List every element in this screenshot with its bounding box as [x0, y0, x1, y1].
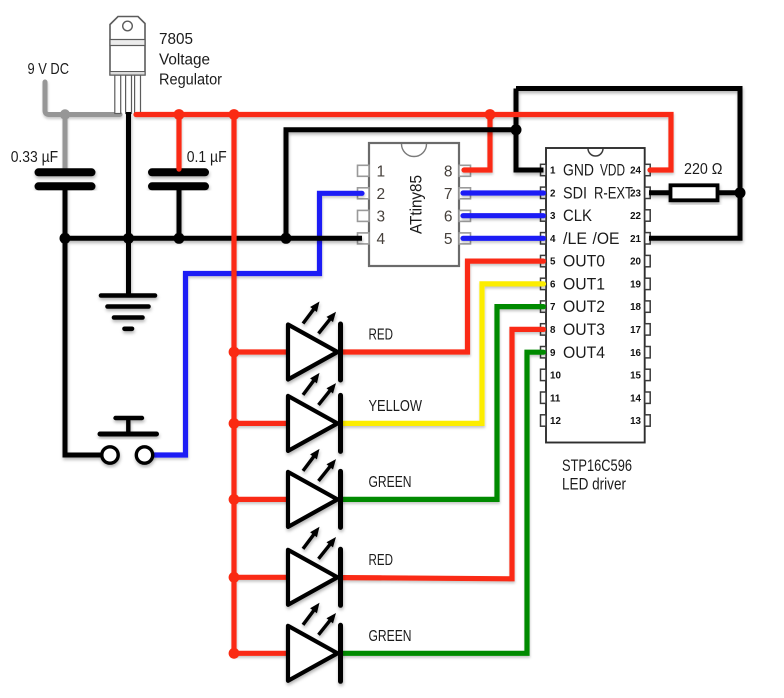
svg-text:OUT1: OUT1 — [563, 276, 605, 294]
svg-text:9: 9 — [550, 348, 556, 359]
svg-text:6: 6 — [444, 209, 453, 226]
svg-text:7: 7 — [444, 186, 453, 203]
svg-text:GREEN: GREEN — [369, 474, 412, 491]
svg-text:22: 22 — [630, 211, 641, 222]
svg-text:14: 14 — [630, 393, 641, 404]
svg-text:LED driver: LED driver — [562, 475, 626, 494]
svg-text:20: 20 — [630, 257, 641, 268]
svg-text:R-EXT: R-EXT — [594, 184, 633, 202]
svg-text:3: 3 — [550, 211, 556, 222]
svg-text:2: 2 — [377, 186, 386, 203]
svg-text:2: 2 — [550, 188, 556, 199]
svg-text:0.1 µF: 0.1 µF — [187, 149, 227, 166]
svg-text:RED: RED — [369, 327, 394, 344]
svg-text:16: 16 — [630, 348, 641, 359]
svg-text:STP16C596: STP16C596 — [562, 456, 632, 475]
svg-text:24: 24 — [630, 166, 641, 177]
svg-text:220 Ω: 220 Ω — [684, 161, 723, 178]
svg-text:12: 12 — [550, 416, 561, 427]
svg-text:9 V DC: 9 V DC — [28, 61, 70, 78]
svg-text:4: 4 — [377, 231, 386, 248]
svg-text:YELLOW: YELLOW — [369, 398, 423, 415]
svg-text:GREEN: GREEN — [369, 628, 412, 645]
svg-text:7805: 7805 — [159, 31, 193, 48]
svg-text:1: 1 — [550, 166, 556, 177]
svg-text:19: 19 — [630, 280, 641, 291]
svg-text:21: 21 — [630, 234, 641, 245]
svg-text:Regulator: Regulator — [159, 72, 222, 89]
svg-text:RED: RED — [369, 552, 394, 569]
svg-text:15: 15 — [630, 371, 641, 382]
svg-text:13: 13 — [630, 416, 641, 427]
svg-text:ATtiny85: ATtiny85 — [408, 175, 426, 234]
svg-text:VDD: VDD — [600, 162, 625, 180]
svg-text:0.33 µF: 0.33 µF — [11, 149, 59, 166]
svg-text:8: 8 — [444, 163, 453, 180]
svg-text:11: 11 — [550, 393, 561, 404]
svg-text:OUT4: OUT4 — [563, 344, 605, 362]
svg-text:/LE: /LE — [563, 230, 587, 248]
svg-text:SDI: SDI — [563, 184, 587, 202]
svg-text:OUT2: OUT2 — [563, 298, 605, 316]
svg-text:10: 10 — [550, 371, 561, 382]
svg-text:OUT3: OUT3 — [563, 321, 605, 339]
svg-text:1: 1 — [377, 163, 386, 180]
svg-text:CLK: CLK — [563, 207, 592, 225]
svg-text:3: 3 — [377, 209, 386, 226]
svg-text:7: 7 — [550, 302, 556, 313]
svg-text:5: 5 — [444, 231, 453, 248]
svg-text:4: 4 — [550, 234, 556, 245]
svg-text:17: 17 — [630, 325, 641, 336]
svg-text:Voltage: Voltage — [159, 51, 210, 68]
svg-text:8: 8 — [550, 325, 556, 336]
svg-text:5: 5 — [550, 257, 556, 268]
svg-text:OUT0: OUT0 — [563, 253, 605, 271]
svg-text:18: 18 — [630, 302, 641, 313]
svg-text:GND: GND — [563, 162, 594, 180]
svg-text:/OE: /OE — [593, 230, 620, 248]
svg-text:6: 6 — [550, 280, 556, 291]
